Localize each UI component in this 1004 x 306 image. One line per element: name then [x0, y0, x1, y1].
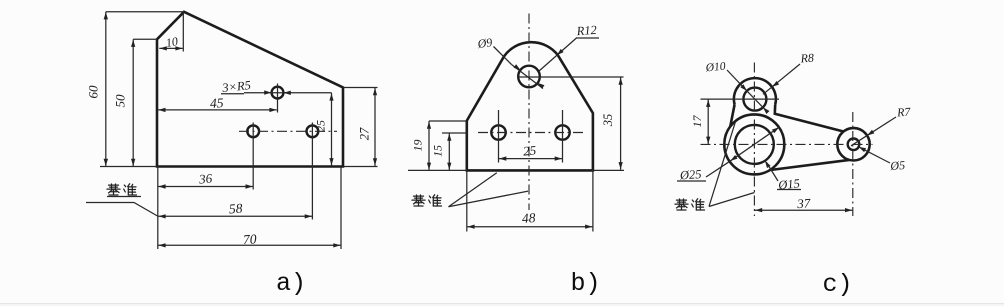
- svg-text:35: 35: [601, 114, 615, 128]
- horizontal center line c: [701, 143, 873, 145]
- dim 48: [467, 226, 593, 228]
- svg-text:R8: R8: [799, 51, 814, 66]
- ext apex down: [182, 12, 184, 52]
- datum label a (jizhun): [107, 184, 137, 195]
- line through top hole: [269, 92, 286, 94]
- bottom ext line right: [343, 166, 378, 168]
- right circle R7: [837, 128, 869, 160]
- dim 36: [158, 186, 253, 188]
- svg-text:25: 25: [314, 120, 328, 132]
- svg-text:36: 36: [197, 170, 213, 186]
- dim 19: [428, 121, 430, 170]
- hole lower-right: [307, 125, 319, 137]
- part a plate outline: [157, 12, 343, 167]
- dim 15: [448, 133, 450, 170]
- svg-text:a): a): [276, 269, 306, 298]
- svg-text:58: 58: [228, 201, 243, 217]
- ext line top (apex level): [106, 11, 184, 13]
- ext vertical bottom-right: [340, 167, 342, 250]
- datum leader a: [86, 203, 158, 217]
- svg-text:b): b): [570, 269, 600, 298]
- ext line 50: [133, 38, 157, 40]
- bottom ext right b: [593, 169, 624, 171]
- datum leaders b: [449, 173, 497, 207]
- datum leaders c: [709, 123, 735, 207]
- dia25 diagonal through big circle: [730, 127, 779, 161]
- svg-text:c): c): [822, 270, 852, 299]
- left side link line: [730, 105, 734, 127]
- dia10 diagonal through hole: [747, 91, 766, 111]
- svg-text:37: 37: [796, 195, 811, 211]
- svg-text:Ø25: Ø25: [678, 167, 701, 183]
- dim 60: [105, 12, 107, 167]
- bottom gray strip: [0, 303, 1004, 304]
- part c top boss arc R8: [734, 78, 776, 104]
- svg-text:27: 27: [358, 127, 372, 140]
- dim 37: [754, 209, 852, 211]
- svg-text:19: 19: [411, 140, 425, 152]
- lower tangent of arm: [770, 160, 849, 170]
- svg-text:70: 70: [243, 231, 258, 247]
- dim 70: [158, 244, 341, 246]
- ext verticals from lower holes: [252, 123, 254, 190]
- dim 10: [159, 47, 183, 49]
- ext line 19: [429, 120, 467, 122]
- svg-text:48: 48: [521, 210, 536, 226]
- line through top hole to right: [284, 92, 332, 94]
- datum label b (jizhun): [412, 195, 442, 206]
- dim 25 b: [499, 158, 563, 160]
- dim 25 vertical (inner right): [331, 93, 333, 166]
- ext line top-right corner: [343, 87, 378, 89]
- right circle vertical center line: [852, 112, 854, 216]
- ext line 35 top (through top hole): [519, 76, 624, 78]
- datum label c (jizhun): [675, 199, 705, 210]
- svg-text:15: 15: [431, 145, 445, 157]
- hole lower-left: [491, 125, 505, 139]
- svg-text:R12: R12: [575, 23, 597, 38]
- svg-text:10: 10: [165, 34, 179, 50]
- dim 35: [620, 77, 622, 170]
- hole top (3xR5): [272, 87, 284, 99]
- dim 17: [707, 99, 709, 144]
- center line through lower holes: [239, 130, 337, 132]
- dim 58: [158, 215, 313, 217]
- center line vertical top hole: [277, 84, 279, 113]
- hole lower-right: [555, 125, 569, 139]
- part c big inner circle (dia 15): [735, 125, 774, 164]
- dim 45: [158, 109, 277, 111]
- vertical center line big/boss: [753, 63, 755, 217]
- svg-text:25: 25: [522, 142, 537, 158]
- dia9 dimension diagonal through hole: [512, 65, 544, 89]
- hole lower-left: [247, 125, 259, 137]
- part c top boss hole dia 10: [743, 88, 766, 111]
- svg-text:Ø5: Ø5: [889, 158, 906, 173]
- svg-text:45: 45: [210, 95, 225, 111]
- bottom ext line left: [100, 166, 157, 168]
- ext line 15: [442, 132, 467, 134]
- svg-text:Ø9: Ø9: [476, 35, 493, 51]
- hole top (dia 9): [518, 66, 540, 88]
- svg-text:R7: R7: [896, 104, 912, 119]
- boss horizontal center line / ext 17: [701, 98, 780, 100]
- right side link + upper tangent of arm: [775, 105, 844, 132]
- svg-text:17: 17: [690, 115, 704, 128]
- vertical center line b: [528, 14, 530, 211]
- horizontal center line b: [478, 132, 584, 134]
- dim 27: [374, 88, 376, 167]
- ext vertical bottom-left: [157, 167, 159, 250]
- ext verticals through lower holes: [498, 110, 500, 163]
- svg-text:60: 60: [86, 85, 101, 99]
- svg-text:Ø10: Ø10: [704, 60, 726, 74]
- part c big boss outer circle (dia 25): [724, 114, 784, 174]
- bottom ext left b: [408, 169, 467, 171]
- svg-text:50: 50: [113, 94, 128, 108]
- right hole dia 5: [848, 139, 860, 151]
- part b plate outline: [467, 42, 593, 170]
- dim 50: [132, 39, 134, 166]
- ext verticals 48: [466, 170, 468, 231]
